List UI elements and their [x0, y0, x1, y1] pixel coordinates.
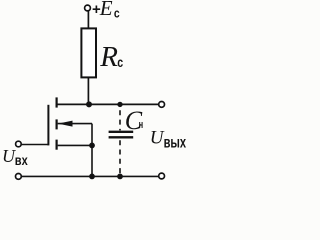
label +Ec: [92, 0, 120, 20]
terminal bottom left: [16, 174, 22, 180]
svg-text:вых: вых: [164, 134, 187, 151]
wire: [87, 11, 89, 29]
node capacitor bottom: [117, 174, 123, 180]
wire drain line: [57, 103, 159, 105]
svg-text:c: c: [117, 54, 123, 70]
label U input: [2, 146, 28, 168]
label Cn: [125, 106, 143, 135]
svg-text:E: E: [99, 0, 113, 20]
label U output: [150, 127, 186, 151]
terminal +Ec: [85, 5, 91, 11]
capacitor Cn bottom lead: [119, 140, 121, 176]
transistor VT channel segment drain: [55, 97, 57, 107]
wire source down: [91, 145, 93, 176]
svg-text:c: c: [114, 5, 120, 20]
node capacitor top: [117, 102, 122, 107]
wire substrate stub: [58, 123, 92, 125]
label Rc: [99, 41, 123, 73]
terminal input: [16, 141, 22, 147]
transistor VT substrate arrow: [58, 121, 73, 127]
terminal output bottom: [159, 173, 165, 179]
wire: [87, 77, 89, 104]
capacitor Cn top lead: [119, 110, 121, 130]
node drain junction: [86, 101, 92, 107]
terminal output top: [159, 102, 165, 108]
capacitor Cn top plate: [109, 131, 134, 133]
wire gate lead: [21, 144, 49, 146]
node source ground: [89, 174, 95, 180]
transistor VT gate line: [47, 105, 49, 146]
transistor VT channel segment source: [55, 140, 57, 150]
transistor VT channel segment substrate: [55, 119, 57, 129]
svg-text:н: н: [139, 119, 144, 131]
svg-text:R: R: [99, 41, 118, 73]
svg-text:вх: вх: [15, 152, 28, 168]
wire ground rail: [21, 175, 159, 177]
resistor Rc: [81, 28, 96, 77]
svg-text:U: U: [150, 127, 165, 148]
wire source stub: [58, 144, 92, 146]
wire substrate down: [91, 124, 93, 146]
node source junction: [89, 143, 95, 149]
capacitor Cn bottom plate: [109, 136, 134, 138]
